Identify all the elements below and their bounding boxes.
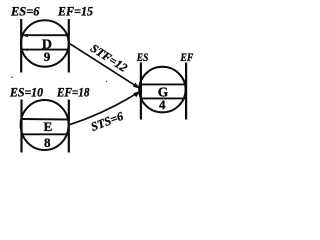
node D lower divider (22, 49, 68, 51)
speckle (106, 81, 107, 82)
svg-text:ES: ES (136, 52, 148, 64)
node G lower divider (142, 97, 185, 99)
node G right time bar (185, 63, 187, 120)
svg-text:EF=18: EF=18 (56, 85, 90, 99)
node D lower divider arrowhead (24, 49, 29, 52)
node D right time bar (68, 19, 70, 73)
node E left time bar (20, 100, 22, 153)
arrowhead STF (133, 83, 140, 89)
arrow STS from E to G (70, 93, 137, 124)
node D circle (21, 20, 69, 66)
arrow STF from D to G (70, 44, 136, 86)
svg-text:STS=6: STS=6 (89, 109, 125, 134)
speckle (12, 77, 14, 79)
node G upper divider (142, 83, 185, 85)
node E right time bar (68, 100, 70, 153)
svg-text:E: E (44, 119, 53, 134)
node E circle (21, 100, 69, 150)
node G circle (139, 67, 185, 113)
svg-text:EF=15: EF=15 (57, 3, 93, 18)
node D left time bar (20, 19, 22, 73)
svg-text:EF: EF (180, 52, 194, 64)
svg-text:4: 4 (159, 97, 166, 112)
node D upper divider arrowhead (23, 34, 28, 38)
node D upper divider (22, 34, 68, 36)
svg-text:8: 8 (44, 135, 51, 150)
arrowhead STS (133, 91, 140, 98)
svg-text:9: 9 (44, 49, 51, 64)
node E lower divider (22, 133, 68, 135)
svg-text:ES=6: ES=6 (10, 3, 40, 18)
svg-text:ES=10: ES=10 (9, 85, 44, 99)
node G left time bar (140, 63, 142, 120)
svg-text:STF=12: STF=12 (88, 41, 130, 75)
node E upper divider (23, 118, 69, 121)
